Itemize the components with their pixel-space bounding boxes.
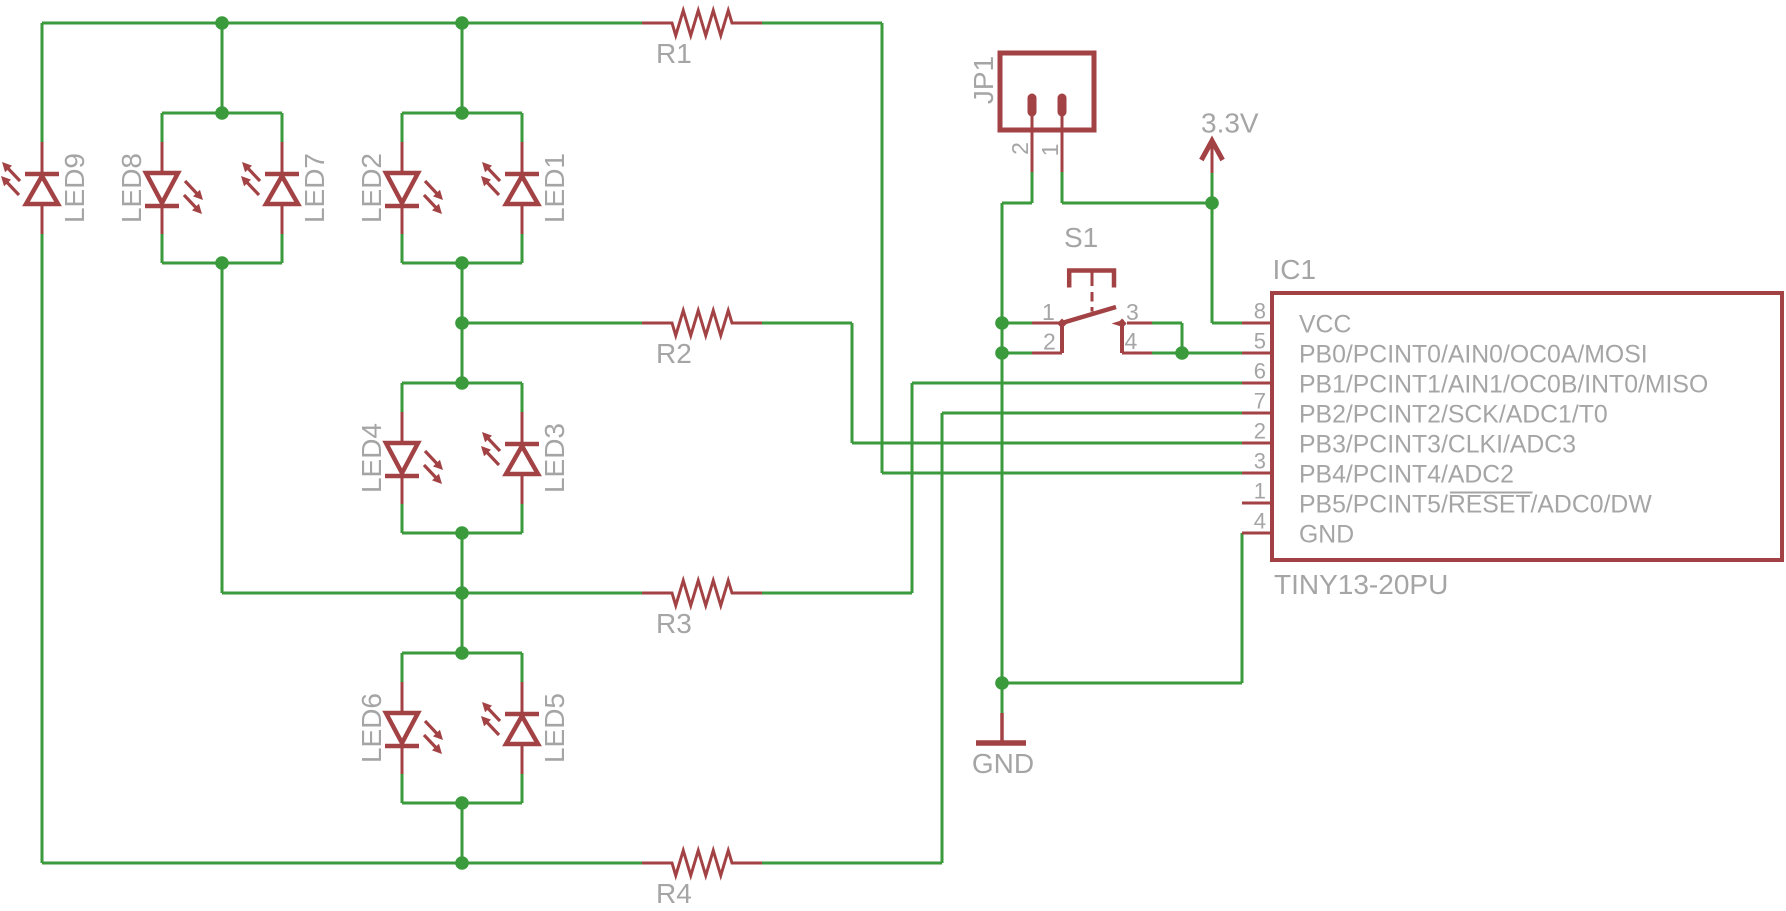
svg-text:JP1: JP1 xyxy=(968,56,999,104)
svg-text:LED2: LED2 xyxy=(356,153,387,223)
svg-text:3: 3 xyxy=(1126,299,1139,325)
svg-text:LED5: LED5 xyxy=(539,693,570,763)
svg-text:R1: R1 xyxy=(656,38,692,69)
svg-text:GND: GND xyxy=(1299,522,1354,549)
svg-text:5: 5 xyxy=(1254,329,1266,354)
svg-text:1: 1 xyxy=(1037,144,1063,157)
svg-text:LED3: LED3 xyxy=(539,423,570,493)
svg-text:VCC: VCC xyxy=(1299,312,1351,339)
svg-text:PB4/PCINT4/ADC2: PB4/PCINT4/ADC2 xyxy=(1299,462,1514,489)
svg-text:S1: S1 xyxy=(1064,222,1098,253)
svg-text:R3: R3 xyxy=(656,608,692,639)
svg-text:PB2/PCINT2/SCK/ADC1/T0: PB2/PCINT2/SCK/ADC1/T0 xyxy=(1299,402,1608,429)
svg-text:4: 4 xyxy=(1125,328,1138,354)
svg-text:LED4: LED4 xyxy=(356,423,387,493)
svg-text:LED7: LED7 xyxy=(299,153,330,223)
svg-text:PB3/PCINT3/CLKI/ADC3: PB3/PCINT3/CLKI/ADC3 xyxy=(1299,432,1576,459)
svg-text:6: 6 xyxy=(1254,359,1266,384)
svg-text:IC1: IC1 xyxy=(1273,254,1317,285)
svg-text:3: 3 xyxy=(1254,449,1266,474)
svg-text:PB1/PCINT1/AIN1/OC0B/INT0/MISO: PB1/PCINT1/AIN1/OC0B/INT0/MISO xyxy=(1299,372,1708,399)
svg-text:2: 2 xyxy=(1007,142,1033,155)
svg-text:PB5/PCINT5/RESET/ADC0/DW: PB5/PCINT5/RESET/ADC0/DW xyxy=(1299,492,1652,519)
svg-text:1: 1 xyxy=(1042,299,1055,325)
svg-text:LED8: LED8 xyxy=(116,153,147,223)
svg-text:TINY13-20PU: TINY13-20PU xyxy=(1274,569,1448,600)
svg-text:4: 4 xyxy=(1254,509,1266,534)
svg-text:LED1: LED1 xyxy=(539,153,570,223)
svg-text:LED9: LED9 xyxy=(59,153,90,223)
svg-text:GND: GND xyxy=(972,748,1034,779)
svg-text:LED6: LED6 xyxy=(356,693,387,763)
svg-text:1: 1 xyxy=(1254,479,1266,504)
svg-text:8: 8 xyxy=(1254,299,1266,324)
svg-text:7: 7 xyxy=(1254,389,1266,414)
svg-text:PB0/PCINT0/AIN0/OC0A/MOSI: PB0/PCINT0/AIN0/OC0A/MOSI xyxy=(1299,342,1648,369)
svg-text:2: 2 xyxy=(1043,329,1056,355)
svg-text:R4: R4 xyxy=(656,878,692,909)
svg-text:2: 2 xyxy=(1254,419,1266,444)
svg-text:R2: R2 xyxy=(656,338,692,369)
svg-text:3.3V: 3.3V xyxy=(1201,108,1259,139)
